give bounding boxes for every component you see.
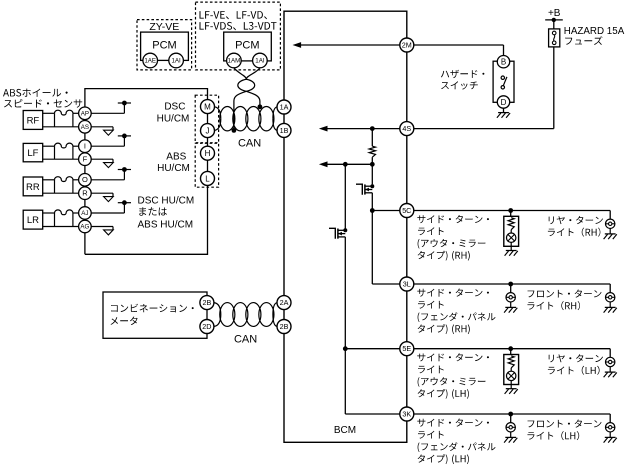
pin L ABS HU CM	[201, 171, 215, 185]
ground side turn light	[506, 388, 517, 390]
wire sensor LF right bar	[72, 146, 74, 159]
svg-text:AJ: AJ	[81, 210, 88, 217]
wire coil to pin AP	[73, 112, 79, 114]
wire resistor to bulb	[510, 230, 512, 233]
wire 5E row	[414, 348, 610, 350]
pin 1AM PCM	[227, 53, 242, 68]
transistor Q1 body stub with arrow	[365, 189, 372, 191]
pin B hazard switch	[497, 56, 509, 68]
wire sensor LR top stub	[43, 212, 55, 214]
wire drop to bulb	[510, 414, 512, 423]
ground shield AS	[104, 130, 114, 135]
ground shield F	[104, 163, 114, 168]
label side turn light	[417, 215, 489, 223]
node 5C branch	[370, 208, 375, 213]
wire 4S junction down to resistor	[371, 129, 373, 147]
ground side turn light	[506, 250, 517, 252]
node 5E branch	[343, 346, 348, 351]
module PCM ZY-VE dashed box	[137, 20, 192, 70]
transistor Q2 gate lead	[329, 228, 335, 239]
pin I sensor	[79, 140, 92, 153]
svg-text:1AI: 1AI	[255, 58, 265, 65]
wire sensor RF top stub	[43, 112, 55, 114]
resistor R on 4S branch	[369, 146, 375, 157]
wire bulb to ground	[609, 367, 611, 372]
wire pin I to node	[91, 145, 124, 147]
resistor and bulb box (side turn light outer mirror)	[504, 216, 519, 246]
module combination meter box	[103, 292, 207, 338]
wire pin O to node	[91, 179, 124, 181]
lamp turn light	[606, 423, 615, 432]
wire to pin 3L	[372, 283, 400, 285]
ground shield R	[104, 197, 114, 202]
pin 2B meter	[200, 296, 214, 310]
svg-text:3L: 3L	[403, 280, 411, 289]
pin R sensor	[79, 187, 92, 200]
pin 1B BCM	[277, 123, 291, 137]
wire +B to fuse	[553, 20, 555, 29]
wire sensor pin chain	[84, 107, 86, 254]
pin 1A BCM	[277, 100, 291, 114]
pin M DSC HU CM	[201, 100, 215, 114]
wire sensor RF right bar	[72, 113, 74, 127]
svg-text:BCM: BCM	[334, 425, 356, 436]
svg-text:D: D	[501, 98, 507, 107]
svg-text:2B: 2B	[203, 298, 212, 307]
wire pin AP to node	[91, 112, 124, 114]
svg-text:3K: 3K	[402, 410, 411, 419]
wire sensor RR top stub	[43, 179, 55, 181]
ground turn light	[605, 436, 616, 438]
svg-text:CAN: CAN	[234, 333, 257, 345]
ground turn light	[605, 371, 616, 373]
node AP stub	[118, 102, 131, 104]
pin AJ sensor	[79, 207, 92, 220]
label LF-VDS L3-VDT	[200, 22, 277, 30]
ground hazard switch	[498, 112, 509, 114]
wire pin F to shield ground	[91, 158, 113, 160]
svg-text:M: M	[204, 103, 211, 112]
svg-text:1AI: 1AI	[171, 58, 181, 65]
wire to pin 5C	[372, 210, 400, 212]
lamp bulb side turn light	[507, 371, 516, 380]
svg-text:I: I	[84, 141, 86, 150]
lamp turn light	[606, 219, 615, 228]
module PCM ZY-VE box	[141, 32, 189, 60]
pin 3K BCM	[400, 407, 414, 421]
label turn light	[528, 290, 602, 298]
resistor in side turn light	[508, 356, 514, 368]
label side turn light	[417, 353, 489, 361]
svg-text:1B: 1B	[280, 126, 289, 135]
wire corner down to turn light	[609, 284, 611, 293]
wire Q1 drain	[371, 164, 373, 184]
svg-text:RF: RF	[27, 115, 40, 126]
resistor in side turn light	[508, 218, 514, 230]
wire Q2 drain	[344, 164, 346, 228]
pin AP sensor	[79, 107, 92, 120]
node AJ stub	[118, 202, 131, 204]
pin AS sensor	[79, 121, 92, 134]
inductor sensor RF coil	[55, 110, 73, 115]
wire drop to resistor box	[510, 211, 512, 217]
transistor Q2 drain junction dot	[343, 228, 347, 232]
wire 2M to hazard switch	[414, 44, 504, 46]
pin H ABS HU CM	[201, 146, 215, 160]
switch SW hazard enclosure	[493, 61, 514, 102]
pin 5E BCM	[400, 342, 414, 356]
svg-text:F: F	[83, 154, 88, 163]
svg-text:PCM: PCM	[152, 39, 176, 51]
wire coil to pin AJ	[73, 212, 79, 214]
pin 2M BCM	[400, 38, 414, 52]
svg-text:AG: AG	[80, 224, 89, 231]
wire pin AG to shield ground	[91, 226, 113, 228]
wire sensor LR left bar	[54, 213, 56, 227]
svg-text:4S: 4S	[402, 124, 411, 133]
wire bulb to ground	[510, 302, 512, 307]
svg-text:DSC HU/CM: DSC HU/CM	[138, 195, 195, 206]
wire bulb to ground	[609, 302, 611, 307]
wire fuse to 4S line	[553, 47, 555, 129]
wire CAN twisted pair from PCM 1AM	[234, 68, 255, 131]
node lower arrow line junction	[370, 162, 375, 167]
node CAN join upper	[258, 104, 263, 109]
module ABS HU CM dashed box	[195, 143, 218, 187]
svg-text:AS: AS	[81, 124, 89, 131]
wire bulb to ground	[510, 381, 512, 389]
wire sensor LF bottom	[43, 158, 79, 160]
wire sensor RR left bar	[54, 180, 56, 193]
ground turn light	[605, 233, 616, 235]
svg-text:2D: 2D	[202, 322, 211, 331]
wire sensor RR bottom	[43, 192, 79, 194]
ground side turn light	[505, 306, 516, 308]
wire to pin 5E	[345, 348, 400, 350]
node 5E row branch	[508, 346, 513, 351]
node junction on 4S line	[370, 126, 375, 131]
wire resistor to bulb	[510, 368, 512, 371]
svg-text:DSC: DSC	[164, 102, 185, 113]
pin 2B BCM	[277, 320, 291, 334]
pin 4S BCM	[400, 122, 414, 136]
wire coil to pin I	[73, 145, 79, 147]
module BCM box	[284, 11, 407, 442]
wire bulb to ground	[510, 432, 512, 437]
transistor Q1 drain junction dot	[370, 184, 374, 188]
sensor RF box	[23, 111, 43, 130]
svg-text:ZY-VE: ZY-VE	[149, 21, 179, 33]
pin 2A BCM	[277, 296, 291, 310]
svg-text:LF: LF	[27, 148, 38, 159]
wire down to 3K row	[344, 349, 346, 414]
transistor Q2 drain stub	[338, 229, 345, 231]
svg-text:2B: 2B	[280, 322, 289, 331]
node O stub	[118, 169, 131, 171]
svg-text:CAN: CAN	[238, 138, 261, 150]
svg-text:ABS: ABS	[166, 151, 186, 162]
node 3L row branch	[508, 282, 513, 287]
wire sensor LR right bar	[72, 213, 74, 227]
svg-text:H: H	[205, 149, 211, 158]
svg-text:5E: 5E	[402, 344, 411, 353]
transistor Q2 body stub with arrow	[338, 233, 345, 235]
pin 2D meter	[200, 320, 214, 334]
wire Q2 source to 5E node	[344, 237, 346, 349]
inductor sensor LF coil	[55, 143, 73, 148]
label turn light	[549, 216, 603, 224]
transistor Q2 source stub	[338, 236, 345, 238]
lamp turn light	[606, 357, 615, 366]
wire drop to resistor box	[510, 349, 512, 355]
svg-text:PCM: PCM	[235, 40, 259, 52]
switch hazard contact lower	[501, 86, 504, 89]
wire 5C row	[414, 210, 610, 212]
sensor RR box	[23, 177, 43, 196]
wire sensor LF top stub	[43, 145, 55, 147]
pin J DSC HU CM	[201, 124, 215, 138]
pin 3L BCM	[400, 277, 414, 291]
wire resistor to lower node	[371, 157, 373, 164]
label turn light	[528, 420, 602, 428]
wire sensor RR right bar	[72, 180, 74, 193]
ground side turn light	[505, 436, 516, 438]
wire pin chain M J H L	[207, 100, 209, 186]
transistor Q2 channel	[337, 229, 339, 239]
inductor sensor RR coil	[55, 177, 73, 182]
wire arrow into BCM at 2M	[301, 44, 400, 46]
wire corner down to turn light	[609, 211, 611, 220]
wire coil to pin O	[73, 179, 79, 181]
pin D hazard switch	[497, 96, 509, 108]
svg-text:R: R	[82, 188, 88, 197]
wire HU CM link bottom	[85, 185, 208, 254]
fuse HAZARD 15A	[549, 29, 560, 47]
label hazard switch	[441, 70, 485, 78]
resistor and bulb box (side turn light outer mirror)	[504, 355, 519, 385]
wire pin R to shield ground	[91, 192, 113, 194]
svg-text:L: L	[205, 174, 210, 183]
pin F sensor	[79, 153, 92, 166]
switch hazard contact upper	[501, 76, 504, 79]
wire CAN twisted pair from PCM 1AI	[238, 68, 260, 107]
label combination meter	[111, 304, 194, 313]
wire Q1 source to 5C node	[371, 193, 373, 211]
svg-text:+B: +B	[548, 8, 561, 19]
wire arrow line lower	[328, 163, 373, 165]
svg-text:AP: AP	[81, 111, 89, 118]
pin O sensor	[79, 174, 92, 187]
node CAN join lower	[232, 128, 237, 133]
svg-text:1AM: 1AM	[228, 58, 241, 65]
wire bulb to ground	[609, 229, 611, 234]
wire CAN twisted pair meter to BCM	[220, 303, 235, 327]
svg-text:1A: 1A	[280, 103, 289, 112]
transistor Q1 drain stub	[365, 185, 372, 187]
svg-text:HAZARD 15A: HAZARD 15A	[564, 26, 625, 37]
wire to pin 3K	[345, 413, 400, 415]
module DSC HU CM dashed box	[195, 95, 218, 143]
transistor Q1 source stub	[365, 192, 372, 194]
label turn light	[549, 354, 603, 362]
sensor LF box	[23, 143, 43, 161]
transistor Q1 channel	[364, 184, 366, 194]
label side turn light	[417, 289, 489, 297]
wire bulb to ground	[609, 432, 611, 437]
wire HU CM link from sensors top	[85, 89, 208, 107]
wire corner down to turn light	[609, 349, 611, 358]
svg-text:1AE: 1AE	[144, 58, 156, 65]
pin 5C BCM	[400, 204, 414, 218]
lamp bulb side turn light	[507, 233, 516, 242]
svg-text:5C: 5C	[402, 206, 411, 215]
label side turn light	[417, 419, 489, 427]
wire 3K row	[414, 413, 610, 415]
svg-text:LR: LR	[27, 215, 39, 226]
svg-text:2M: 2M	[402, 41, 412, 50]
wire CAN twisted pair M J to 1A 1B	[220, 107, 235, 131]
svg-text:HU/CM: HU/CM	[157, 114, 190, 125]
wire sensor LF left bar	[54, 146, 56, 159]
node 3K row branch	[508, 412, 513, 417]
wire sensor RF bottom	[43, 126, 79, 128]
wire 3L row	[414, 283, 610, 285]
svg-text:RR: RR	[26, 182, 40, 193]
lamp bulb side turn light	[506, 293, 515, 302]
node I stub	[118, 135, 131, 137]
wire drop to bulb	[510, 284, 512, 293]
ground shield AG	[104, 230, 114, 235]
module PCM LF dashed box	[196, 2, 281, 70]
svg-text:B: B	[501, 58, 506, 67]
label LF-VE LF-VD	[200, 11, 268, 19]
svg-text:ABS HU/CM: ABS HU/CM	[138, 220, 194, 231]
wire pin AS to shield ground	[91, 126, 113, 128]
wire down to 3L row	[371, 211, 373, 285]
wire arrow into BCM at 4S	[328, 128, 400, 130]
wire pin AJ to node	[91, 212, 124, 214]
pin 1AI PCM	[169, 53, 184, 68]
ground turn light	[605, 306, 616, 308]
wire bulb to ground	[510, 242, 512, 250]
module PCM LF box	[224, 32, 272, 61]
pin 1AI PCM	[253, 53, 268, 68]
pin 1AE PCM	[143, 53, 158, 68]
inductor sensor LR coil	[55, 210, 73, 215]
svg-text:O: O	[82, 175, 88, 184]
svg-text:J: J	[206, 127, 210, 136]
wire sensor LR bottom	[43, 226, 79, 228]
pin AG sensor	[79, 220, 92, 233]
switch hazard lever	[503, 77, 507, 86]
sensor LR box	[23, 210, 43, 229]
svg-text:HU/CM: HU/CM	[157, 163, 190, 174]
wire sensor RF left bar	[54, 113, 56, 127]
label ABS wheel speed sensor	[3, 89, 68, 97]
node 5C row branch	[508, 208, 513, 213]
node branch to Q2	[343, 162, 348, 167]
transistor Q1 gate lead	[356, 184, 362, 195]
svg-text:2A: 2A	[280, 298, 289, 307]
wire D to ground	[503, 108, 505, 112]
lamp turn light	[606, 293, 615, 302]
wire corner down to turn light	[609, 414, 611, 423]
lamp bulb side turn light	[506, 423, 515, 432]
